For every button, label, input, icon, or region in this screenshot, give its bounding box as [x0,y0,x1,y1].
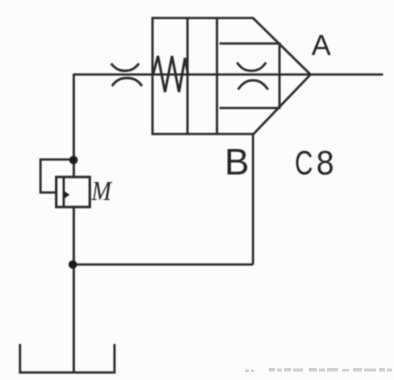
valve divider line 2 [216,18,218,134]
wire left vertical lower segment [73,207,75,373]
relief valve arrowhead [65,191,70,198]
relief valve body [56,177,90,207]
valve inner box [220,44,280,109]
throttle on left wire, bottom arc [112,78,142,86]
wire left vertical upper segment [73,74,75,178]
spring [153,56,188,92]
svg-text:8: 8 [316,144,334,182]
valve divider line 1 [186,18,188,134]
junction node 1 [69,156,78,165]
relief valve inner line [63,177,65,207]
watermark strip [245,370,249,373]
tank symbol [20,344,115,373]
wire main horizontal line to port A [74,73,383,75]
wire return from port B, vertical [252,133,254,265]
svg-text:M: M [91,176,113,207]
throttle on left wire, top arc [111,64,139,71]
wire return from port B, horizontal [73,263,254,265]
valve V body outline (pentagon with right-pointing apex) [153,18,311,134]
pilot bypass line [41,160,74,193]
svg-text:C: C [295,145,313,183]
orifice arcs inside valve, bottom arc [238,80,268,89]
svg-text:A: A [312,30,332,62]
orifice arcs inside valve, top arc [237,63,266,71]
svg-text:B: B [225,142,250,183]
junction node 2 [69,260,78,269]
